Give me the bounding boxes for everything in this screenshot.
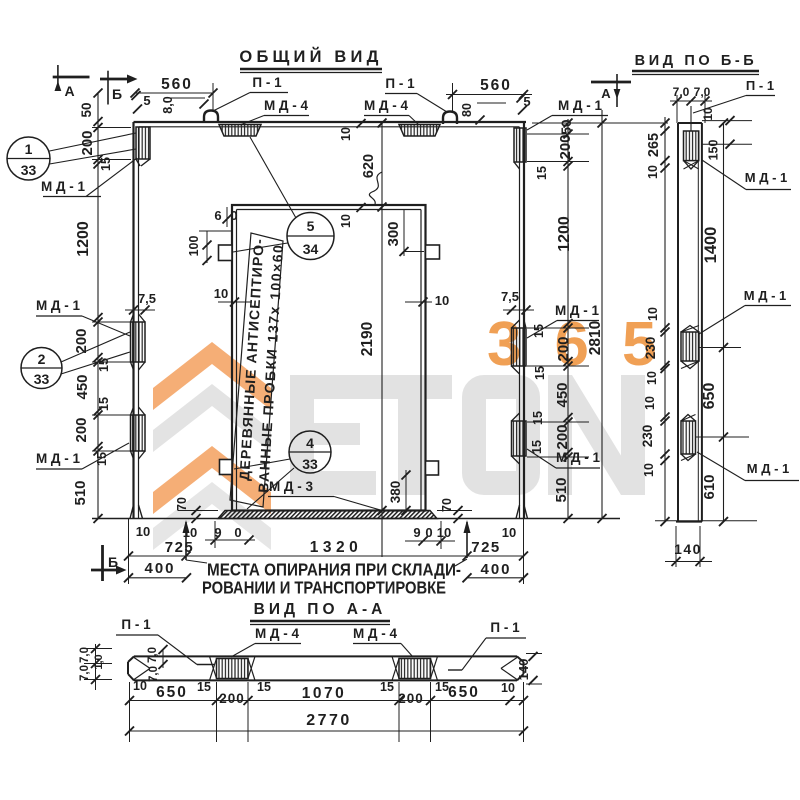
- svg-text:400: 400: [480, 561, 511, 578]
- callout circle 1/33: [7, 133, 136, 180]
- dim 300 right top: [385, 210, 424, 256]
- svg-text:230: 230: [643, 337, 658, 360]
- svg-text:2810: 2810: [587, 321, 604, 355]
- B-B dim 70 70: [670, 85, 712, 123]
- svg-text:450: 450: [554, 382, 571, 407]
- dim 10 left inner edge: [214, 286, 252, 307]
- svg-text:33: 33: [34, 371, 50, 387]
- left vertical member: [134, 122, 139, 519]
- svg-text:15: 15: [99, 157, 113, 171]
- svg-text:560: 560: [480, 77, 512, 94]
- label MD-1 right top: [527, 98, 608, 130]
- left member width dim 75: [125, 291, 156, 315]
- svg-text:М Д - 3: М Д - 3: [269, 479, 314, 494]
- section mark A right: [591, 74, 631, 107]
- svg-text:2770: 2770: [306, 712, 352, 729]
- svg-text:15: 15: [257, 680, 271, 694]
- dim 560 left: [131, 76, 218, 112]
- A-A bar: [128, 656, 524, 680]
- A-A label P-1 left: [116, 617, 214, 665]
- wooden plug tab right bottom: [426, 461, 439, 475]
- B-B bottom dim 140: [655, 521, 757, 567]
- svg-text:650: 650: [701, 383, 718, 410]
- svg-text:М Д - 1: М Д - 1: [36, 451, 81, 466]
- svg-text:140: 140: [516, 659, 531, 681]
- B-B top block MD-1: [684, 131, 699, 169]
- svg-text:1400: 1400: [702, 227, 720, 264]
- B-B lower block MD-1: [681, 415, 696, 461]
- svg-text:7,0: 7,0: [694, 85, 711, 99]
- left dimension chain: [92, 89, 131, 524]
- svg-text:400: 400: [144, 560, 175, 577]
- svg-text:1320: 1320: [310, 539, 362, 556]
- right chain labels: [530, 119, 574, 502]
- svg-text:10: 10: [339, 214, 353, 228]
- dim 5 right: [517, 94, 531, 115]
- svg-text:М Д - 1: М Д - 1: [558, 98, 603, 113]
- inner opening rectangle: [232, 205, 426, 511]
- svg-text:10: 10: [646, 165, 660, 179]
- dim 5 left: [132, 91, 151, 114]
- label MD-1 right middle: [527, 303, 600, 338]
- svg-text:200: 200: [557, 134, 574, 159]
- plug P-1 bump right: [443, 112, 457, 125]
- svg-text:380: 380: [388, 481, 403, 504]
- svg-text:10: 10: [136, 524, 150, 539]
- svg-text:725: 725: [165, 539, 195, 556]
- svg-text:50: 50: [79, 102, 94, 117]
- svg-text:140: 140: [674, 541, 702, 557]
- A-A dim row 1: [125, 679, 528, 742]
- svg-text:510: 510: [553, 477, 570, 502]
- dim 70 strip right: [437, 498, 472, 523]
- svg-text:М Д - 4: М Д - 4: [353, 626, 398, 641]
- block MD-4 left in top bar: [219, 125, 261, 137]
- left member top block MD-1: [136, 127, 150, 166]
- dim 6 0 top left inner: [214, 207, 237, 227]
- title ВИД ПО А-А: [250, 601, 390, 625]
- svg-text:1070: 1070: [302, 685, 346, 702]
- svg-text:МЕСТА ОПИРАНИЯ ПРИ СКЛАДИ-: МЕСТА ОПИРАНИЯ ПРИ СКЛАДИ-: [207, 560, 461, 580]
- dim row 725 1320 725: [124, 519, 528, 585]
- svg-text:7,0: 7,0: [673, 85, 690, 99]
- svg-text:33: 33: [21, 162, 37, 178]
- section mark A left: [53, 65, 90, 99]
- dim 10 right inner edge: [405, 293, 449, 308]
- right member lower block MD-1: [512, 413, 527, 464]
- svg-text:200: 200: [554, 424, 571, 449]
- B-B dim 10 150 right top: [701, 107, 752, 160]
- B-B label MD-1 lower: [697, 452, 799, 481]
- A-A dim 140 right: [516, 652, 542, 685]
- svg-text:5: 5: [143, 93, 150, 108]
- svg-text:ОБЩИЙ ВИД: ОБЩИЙ ВИД: [239, 47, 382, 66]
- svg-text:15: 15: [435, 680, 449, 694]
- svg-text:А: А: [64, 83, 74, 99]
- svg-text:200: 200: [219, 691, 245, 706]
- bottom strip MD-3 hatched: [218, 511, 437, 519]
- main view top bar: [134, 122, 527, 127]
- svg-text:10: 10: [339, 127, 353, 141]
- svg-text:265: 265: [646, 133, 662, 157]
- left chain labels: [72, 102, 113, 505]
- dim 8.0 left: [161, 96, 209, 113]
- note MESTA OPIRANIYA: [186, 559, 467, 598]
- svg-text:4: 4: [306, 435, 314, 451]
- wooden plug tab left top: [219, 245, 233, 261]
- svg-text:200: 200: [73, 417, 90, 442]
- label P-1 second: [385, 76, 447, 112]
- label MD-4 left: [240, 98, 309, 125]
- svg-text:М Д - 4: М Д - 4: [364, 98, 409, 113]
- bottom sub dims right: [405, 521, 516, 549]
- svg-text:1,0: 1,0: [93, 654, 105, 669]
- right vertical member: [520, 122, 525, 519]
- svg-text:А: А: [601, 86, 611, 101]
- chain 2810: [532, 110, 668, 523]
- B-B bar: [676, 123, 702, 522]
- svg-text:10: 10: [133, 679, 147, 693]
- dim 560 right: [446, 77, 532, 112]
- callout circle 4/33: [234, 431, 331, 509]
- wooden plug tab left bottom: [220, 460, 233, 475]
- label MD-4 right: [364, 98, 419, 125]
- svg-text:10: 10: [645, 371, 659, 385]
- svg-text:РОВАНИИ И ТРАНСПОРТИРОВКЕ: РОВАНИИ И ТРАНСПОРТИРОВКЕ: [202, 578, 446, 598]
- svg-text:70: 70: [440, 498, 454, 512]
- svg-text:200: 200: [73, 328, 90, 353]
- watermark text ETON: [290, 375, 645, 495]
- left member foot: [130, 505, 143, 519]
- svg-text:15: 15: [535, 166, 549, 180]
- bottom baseline: [92, 518, 620, 520]
- svg-text:1200: 1200: [556, 216, 573, 252]
- svg-text:ВИД ПО А-А: ВИД ПО А-А: [254, 601, 387, 618]
- svg-text:10: 10: [642, 463, 656, 477]
- label P-1 first: [213, 75, 288, 111]
- svg-text:М Д - 1: М Д - 1: [744, 288, 787, 303]
- svg-text:П - 1: П - 1: [385, 76, 415, 91]
- dim 100 left tab: [187, 231, 232, 265]
- svg-text:М Д - 1: М Д - 1: [745, 170, 788, 185]
- svg-text:10: 10: [435, 293, 449, 308]
- label MD-1 right lower: [527, 449, 601, 468]
- svg-text:560: 560: [161, 76, 193, 93]
- right member top block MD-1: [514, 128, 526, 169]
- dim 70 strip left: [175, 497, 218, 523]
- svg-text:725: 725: [471, 539, 501, 556]
- svg-text:5: 5: [307, 218, 315, 234]
- svg-text:15: 15: [533, 366, 547, 380]
- svg-text:100: 100: [187, 236, 201, 257]
- label MD-1 left middle: [36, 298, 130, 336]
- svg-text:ВИД ПО Б-Б: ВИД ПО Б-Б: [635, 53, 758, 69]
- vertical note text box: [230, 233, 286, 507]
- label MD-1 left top: [41, 158, 137, 197]
- left member lower block MD-1: [131, 407, 146, 459]
- svg-text:П - 1: П - 1: [490, 620, 520, 635]
- vertical dim line 620-2190: [357, 119, 387, 558]
- A-A left end small dims: [79, 644, 168, 690]
- dim 380 right bottom: [388, 470, 411, 515]
- callout circle 2/33: [21, 332, 130, 389]
- bottom sub dims left: [136, 521, 255, 548]
- plug P-1 bump left: [204, 111, 218, 124]
- B-B right chain 1400 650 610: [696, 119, 750, 527]
- svg-text:10: 10: [501, 681, 515, 695]
- svg-text:М Д - 1: М Д - 1: [556, 450, 601, 465]
- B-B label MD-1 top: [702, 160, 791, 190]
- right member middle block MD-1: [512, 320, 527, 374]
- B-B left chain labels: [640, 133, 662, 477]
- svg-text:М Д - 1: М Д - 1: [41, 179, 86, 194]
- svg-text:7,5: 7,5: [501, 289, 519, 304]
- svg-text:М Д - 1: М Д - 1: [36, 298, 81, 313]
- B-B left chain: [661, 117, 670, 526]
- svg-text:150: 150: [707, 140, 721, 161]
- A-A block MD-4 right: [392, 656, 438, 680]
- svg-text:15: 15: [197, 680, 211, 694]
- svg-text:7,0: 7,0: [147, 647, 159, 663]
- svg-text:15: 15: [531, 411, 545, 425]
- svg-text:610: 610: [701, 474, 718, 499]
- support point arrow right: [464, 520, 471, 558]
- svg-text:650: 650: [448, 684, 480, 701]
- svg-text:7,0: 7,0: [79, 665, 91, 681]
- svg-text:450: 450: [74, 374, 91, 399]
- svg-text:1: 1: [25, 141, 33, 157]
- svg-text:2: 2: [38, 351, 46, 367]
- svg-text:15: 15: [97, 397, 111, 411]
- wooden plug tab right top: [426, 245, 440, 259]
- section mark Б bottom left: [91, 545, 127, 581]
- svg-text:10: 10: [214, 286, 228, 301]
- svg-text:8,0: 8,0: [161, 96, 175, 113]
- dim 80 right: [460, 103, 506, 125]
- svg-text:9: 9: [413, 525, 420, 540]
- svg-text:Б: Б: [108, 554, 118, 570]
- callout circle 5/34: [233, 137, 334, 260]
- right member foot: [516, 505, 528, 519]
- svg-text:П - 1: П - 1: [252, 75, 282, 90]
- right member width dim 75: [501, 289, 534, 315]
- svg-text:10: 10: [646, 307, 660, 321]
- support point arrow left: [183, 520, 190, 560]
- title ОБЩИЙ ВИД: [239, 47, 382, 73]
- svg-text:300: 300: [385, 221, 402, 246]
- svg-text:Б: Б: [112, 86, 122, 102]
- svg-text:230: 230: [640, 425, 655, 448]
- left member middle block MD-1: [131, 314, 146, 370]
- label MD-3: [268, 479, 382, 511]
- svg-text:7,0: 7,0: [79, 647, 91, 663]
- svg-text:510: 510: [72, 480, 89, 505]
- svg-text:10: 10: [643, 396, 657, 410]
- svg-text:70: 70: [175, 497, 189, 511]
- dim row 400 400: [124, 560, 528, 582]
- section mark Б left: [100, 71, 138, 105]
- svg-text:7,5: 7,5: [138, 291, 156, 306]
- B-B label P-1: [693, 78, 775, 113]
- svg-text:200: 200: [398, 691, 424, 706]
- svg-text:200: 200: [555, 336, 572, 361]
- svg-text:0: 0: [234, 525, 241, 540]
- watermark chevron logo: [153, 342, 271, 550]
- svg-text:1200: 1200: [75, 221, 92, 257]
- svg-text:80: 80: [460, 103, 474, 117]
- svg-text:33: 33: [302, 456, 318, 472]
- label MD-1 left lower: [36, 443, 129, 469]
- svg-text:620: 620: [361, 154, 377, 178]
- A-A dim row 2770: [125, 712, 528, 736]
- A-A label MD-4 left: [231, 626, 301, 657]
- title ВИД ПО Б-Б: [632, 53, 759, 75]
- svg-text:15: 15: [380, 680, 394, 694]
- svg-text:2190: 2190: [359, 322, 376, 356]
- right dimension chain: [527, 119, 589, 524]
- B-B plug centerline: [690, 106, 692, 131]
- svg-text:6: 6: [214, 208, 221, 223]
- A-A label MD-4 right: [353, 626, 413, 657]
- svg-text:10: 10: [502, 525, 516, 540]
- svg-text:П - 1: П - 1: [746, 78, 774, 93]
- svg-text:650: 650: [156, 684, 188, 701]
- B-B middle block MD-1: [681, 326, 699, 369]
- svg-text:П - 1: П - 1: [121, 617, 151, 632]
- svg-text:М Д - 1: М Д - 1: [747, 461, 790, 476]
- svg-text:34: 34: [303, 241, 319, 257]
- block MD-4 right in top bar: [399, 125, 440, 137]
- A-A block MD-4 left: [210, 656, 256, 680]
- svg-text:10: 10: [701, 107, 715, 121]
- svg-text:15: 15: [95, 452, 109, 466]
- svg-text:50: 50: [559, 119, 574, 134]
- svg-text:М Д - 1: М Д - 1: [555, 303, 600, 318]
- svg-text:М Д - 4: М Д - 4: [264, 98, 309, 113]
- A-A label P-1 right: [448, 620, 526, 670]
- dim 10 top center: [339, 127, 353, 141]
- svg-text:М Д - 4: М Д - 4: [255, 626, 300, 641]
- B-B label MD-1 middle: [699, 288, 791, 334]
